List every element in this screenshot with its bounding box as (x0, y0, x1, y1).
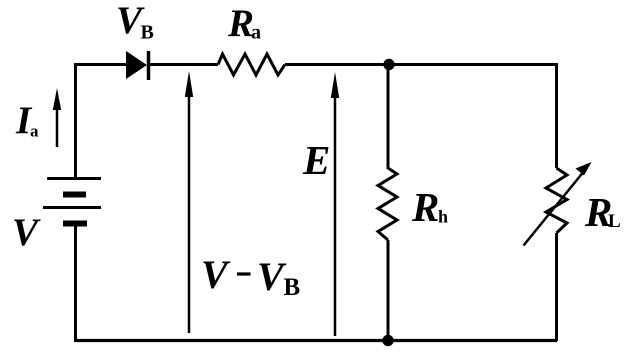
voltage arrow E (331, 72, 339, 336)
label V (battery) (12, 211, 41, 254)
wire battery bottom to bottom-left corner (74, 224, 77, 342)
wire RL down to bottom-right corner (555, 233, 558, 341)
svg-text:V: V (201, 252, 231, 297)
label Ia (15, 99, 39, 142)
svg-text:V: V (257, 254, 287, 299)
wire left vertical from top corner down to battery (74, 63, 77, 178)
label Rh (411, 184, 448, 230)
wire bottom horizontal (74, 339, 557, 342)
svg-text:a: a (251, 22, 261, 44)
wire Rh down to bottom node (387, 240, 390, 341)
diode D (V_B) (126, 51, 149, 80)
node dot bottom (junction of Rh branch) (382, 335, 393, 346)
wire top node down to Rh (387, 65, 390, 170)
svg-text:L: L (608, 211, 621, 232)
node dot top (junction of Rh branch) (383, 59, 394, 70)
battery V (43, 179, 101, 224)
wire diode cathode to resistor Ra (149, 63, 219, 66)
voltage arrow V-VB (185, 71, 193, 333)
svg-text:h: h (438, 207, 448, 227)
label Ra (227, 2, 261, 45)
svg-text:R: R (411, 184, 439, 230)
resistor RL zigzag (variable) (546, 168, 567, 233)
label VB (116, 0, 154, 44)
wire resistor Ra to top-right corner (285, 63, 557, 66)
wire top-left horizontal from corner to diode anode (75, 63, 127, 66)
svg-text:a: a (30, 122, 39, 141)
svg-text:B: B (141, 22, 154, 44)
label V - VB (201, 252, 300, 301)
svg-text:R: R (227, 2, 254, 45)
svg-text:V: V (12, 211, 41, 254)
resistor Rh zigzag (378, 168, 397, 240)
svg-text:B: B (284, 274, 301, 301)
label E (302, 137, 330, 183)
wire top-right corner down to RL (555, 63, 558, 168)
variable-resistor arrow across RL (524, 162, 592, 246)
resistor Ra zigzag (218, 54, 285, 75)
current arrow Ia (53, 88, 61, 147)
svg-text:E: E (302, 137, 330, 183)
label RL (584, 189, 621, 235)
